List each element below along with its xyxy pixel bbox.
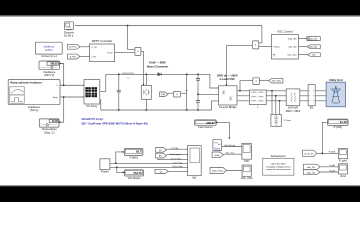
svg-text:V_PV: V_PV — [91, 47, 97, 49]
svg-text:Subsystem1: Subsystem1 — [271, 154, 287, 158]
svg-text:Pulses: Pulses — [273, 46, 280, 48]
svg-text:Vdc Inverter: Vdc Inverter — [198, 125, 213, 129]
svg-text:Mean: Mean — [214, 148, 220, 150]
svg-text:Pulse: Pulse — [107, 52, 113, 54]
svg-text:VSC Control: VSC Control — [277, 30, 293, 34]
svg-text:606.02: 606.02 — [51, 64, 59, 66]
svg-text:250V dc — 260V: 250V dc — 260V — [216, 73, 238, 77]
svg-text:B1: B1 — [310, 106, 314, 110]
svg-text:45.00: 45.00 — [52, 120, 58, 123]
svg-text:2e-05 s.: 2e-05 s. — [64, 34, 74, 38]
svg-text:(Deg. C): (Deg. C) — [44, 130, 54, 134]
svg-text:[V]: [V] — [159, 150, 162, 152]
svg-text:(Temp): (Temp) — [30, 108, 39, 112]
svg-text:Vab (Vmea): Vab (Vmea) — [224, 145, 235, 147]
svg-text:[Vb]: [Vb] — [161, 94, 165, 96]
svg-text:254.76: 254.76 — [133, 171, 142, 175]
svg-text:[o]: [o] — [160, 171, 163, 173]
svg-text:Vabc_B1: Vabc_B1 — [309, 39, 318, 41]
svg-text:PV: PV — [193, 176, 197, 180]
svg-text:Vab_VSC: Vab_VSC — [272, 81, 282, 83]
svg-text:P (kW): P (kW) — [334, 125, 342, 129]
svg-text:MPPT Controller: MPPT Controller — [92, 39, 113, 43]
svg-text:P (kW): P (kW) — [329, 152, 336, 154]
svg-text:P [kW]: P [kW] — [130, 155, 138, 159]
svg-text:I_PV (A): I_PV (A) — [170, 147, 179, 150]
svg-text:Duty Cycle: Duty Cycle — [173, 165, 184, 168]
svg-text:3-Level VSC: 3-Level VSC — [219, 77, 235, 81]
svg-text:P_grid: P_grid — [339, 158, 347, 162]
svg-text:Boost Converter: Boost Converter — [147, 64, 169, 68]
svg-text:100-kW PV Array:: 100-kW PV Array: — [81, 117, 103, 121]
svg-text:PV Array: PV Array — [86, 104, 97, 108]
svg-text:[I_PV]: [I_PV] — [70, 56, 76, 58]
svg-text:Vdc_mea: Vdc_mea — [226, 153, 236, 155]
svg-text:mean (V): mean (V) — [173, 162, 182, 164]
svg-text:Utility Grid: Utility Grid — [329, 78, 343, 82]
svg-text:Switching (-): Switching (-) — [170, 153, 182, 156]
svg-text:[Vab_VSC]: [Vab_VSC] — [212, 171, 223, 173]
svg-text:scopes for measurements: scopes for measurements — [266, 168, 292, 171]
svg-text:[D]: [D] — [159, 156, 162, 158]
svg-text:Iabc_B1: Iabc_B1 — [289, 47, 298, 49]
svg-text:Open this block: Open this block — [271, 163, 287, 166]
svg-text:3-Level Bridge: 3-Level Bridge — [219, 105, 237, 109]
svg-text:Power (W): Power (W) — [171, 157, 181, 160]
svg-text:Vdc_mea: Vdc_mea — [287, 55, 297, 57]
svg-text:Ia (A): Ia (A) — [330, 164, 335, 167]
svg-text:A timer (p.u.): A timer (p.u.) — [41, 54, 57, 58]
svg-text:Grid: Grid — [340, 174, 346, 178]
svg-text:[Vdc]: [Vdc] — [215, 155, 220, 157]
svg-text:5-kW — 500V: 5-kW — 500V — [149, 61, 166, 65]
svg-text:Temp: Temp — [52, 97, 58, 99]
svg-text:VSC: VSC — [244, 159, 250, 163]
svg-text:1.5 kvar: 1.5 kvar — [284, 119, 292, 122]
svg-text:Iabc_B1: Iabc_B1 — [309, 47, 318, 49]
svg-text:Vabc_B1: Vabc_B1 — [288, 39, 297, 41]
svg-text:499.87: 499.87 — [206, 121, 215, 125]
svg-text:Vab_VSC: Vab_VSC — [241, 176, 253, 180]
svg-text:(W/m^2): (W/m^2) — [44, 73, 54, 77]
svg-text:Va (V): Va (V) — [330, 170, 336, 172]
svg-text:to display voltage/current: to display voltage/current — [266, 165, 291, 168]
svg-text:Ramp-up/down Irradiance: Ramp-up/down Irradiance — [10, 80, 42, 84]
svg-text:Vdc Boost: Vdc Boost — [128, 176, 141, 180]
svg-text:Temperature: Temperature — [41, 127, 57, 131]
svg-text:[V_PV]: [V_PV] — [69, 47, 76, 49]
svg-text:I_PV: I_PV — [91, 57, 97, 59]
svg-text:Power: Power — [101, 170, 109, 174]
svg-text:91.49: 91.49 — [340, 120, 347, 124]
svg-text:B_25_kV: B_25_kV — [305, 153, 314, 155]
svg-text:Vabc_B1: Vabc_B1 — [307, 172, 316, 174]
svg-text:82.7: 82.7 — [136, 150, 142, 154]
svg-text:260V / 25kV: 260V / 25kV — [286, 109, 301, 113]
svg-text:Iabc_B1: Iabc_B1 — [307, 167, 316, 169]
svg-text:Irradiance: Irradiance — [43, 70, 56, 74]
svg-text:14.85 s: 14.85 s — [45, 49, 54, 52]
svg-text:330 * SunPower SPR-305E-WHT-D: 330 * SunPower SPR-305E-WHT-D (Nser=5 Np… — [81, 122, 147, 126]
